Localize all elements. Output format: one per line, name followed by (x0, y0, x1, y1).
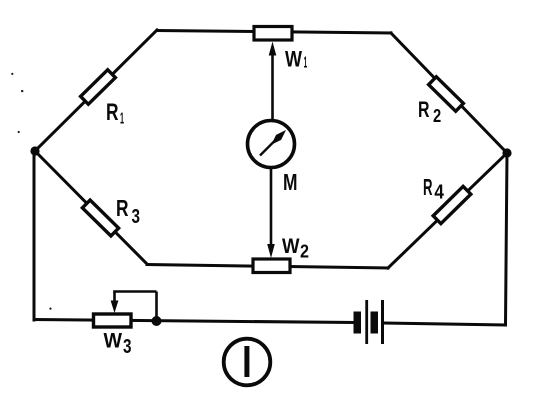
meter M (248, 121, 295, 168)
wire: bottom outer right segment (384, 323, 505, 325)
potentiometer W3 wiper arrow and short link (111, 292, 157, 321)
label W1 (285, 46, 307, 71)
resistor R3 (82, 200, 118, 236)
potentiometer W1 wiper arrow and wire (269, 42, 277, 122)
svg-text:R: R (423, 174, 433, 200)
node right (junction dot) (502, 148, 511, 157)
label W3 (104, 330, 132, 359)
wire: bottom outer left segment (34, 320, 354, 323)
svg-text:R: R (418, 97, 430, 122)
svg-text:1: 1 (120, 111, 124, 128)
svg-text:4: 4 (434, 182, 444, 204)
svg-text:2: 2 (433, 106, 441, 126)
resistor R2 (429, 77, 464, 111)
wire: left node down-right diagonal (R3 branch) (35, 151, 147, 264)
wire: left node to top-left corner (35, 30, 157, 151)
svg-text:R: R (116, 195, 129, 221)
wire: bottom-right diagonal (R4 branch) (388, 153, 507, 268)
circled I (figure label) (224, 339, 271, 386)
junction dot at W3 link (152, 316, 162, 326)
svg-text:R: R (106, 99, 119, 126)
label W2 (282, 235, 309, 262)
potentiometer W1 body (254, 27, 292, 41)
svg-text:1: 1 (304, 55, 308, 72)
svg-text:2: 2 (300, 241, 309, 262)
label R2 (418, 97, 441, 126)
svg-text:W: W (104, 330, 123, 353)
label R4 (423, 174, 445, 204)
svg-text:3: 3 (132, 206, 141, 228)
svg-text:3: 3 (123, 336, 132, 358)
node left (junction dot) (30, 146, 39, 155)
potentiometer W3 body (94, 314, 132, 327)
potentiometer W2 body (253, 259, 290, 273)
battery B1 (354, 300, 385, 344)
svg-text:W: W (285, 46, 303, 71)
svg-text:W: W (282, 235, 300, 258)
resistor R4 (433, 186, 471, 223)
wire: right vertical (506, 153, 508, 325)
wire: top horizontal (157, 31, 391, 34)
label R1 (106, 99, 124, 128)
wire: meter to W2 wiper (267, 168, 275, 259)
wire: hexagon bottom horizontal (147, 265, 388, 269)
wire: left vertical (33, 151, 36, 320)
wire: top-right diagonal to right node (391, 33, 507, 153)
svg-text:M: M (283, 169, 298, 195)
label R3 (116, 195, 140, 228)
resistor R1 (81, 70, 116, 104)
